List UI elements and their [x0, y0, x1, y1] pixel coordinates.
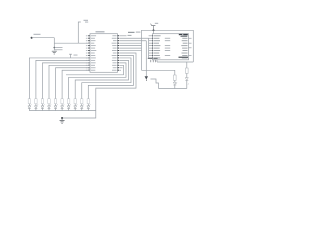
U1 right pin row (pins with numbers) [118, 35, 120, 70]
wire U1 pin bus 3 [119, 47, 141, 49]
wire vertical bus x146 [145, 41, 147, 76]
wire bus segment R10 (U1 pin around IC bottom to R10) [88, 55, 133, 98]
LED D2 [35, 104, 39, 111]
wire bus segment L1 (U1 pin to R1) [29, 58, 90, 99]
wire wrap inner stub [66, 65, 124, 74]
wire to U1 RST pin [54, 42, 90, 44]
U2 bottom pin stubs [148, 58, 158, 62]
wire bus segment L3 (U1 pin to R3) [42, 63, 90, 99]
LED D12 [185, 73, 189, 88]
U1 title label [96, 31, 105, 32]
U1 left pin name labels [91, 35, 96, 70]
node junction C1 [54, 47, 56, 49]
wire stub U1 top-right pin [119, 34, 131, 37]
resistor R6 [61, 99, 63, 104]
resistor R1 [28, 99, 30, 104]
U2 left edge pin dots [152, 35, 153, 58]
LED D3 [41, 104, 45, 111]
LED D1 [28, 104, 32, 111]
U2 right pin stubs [189, 38, 192, 55]
wire rail to ground tap [62, 111, 96, 119]
resistor R10 [87, 99, 89, 104]
wire stub pin 28 [119, 67, 122, 69]
node T-tap above P1 bus [69, 54, 78, 58]
wire rail feed (U1 pin wrap to cathode rail) [96, 53, 136, 110]
wire vertical bus x148 [148, 38, 150, 58]
wire U1 pin bus 4 [119, 50, 141, 52]
wire U1 pin to VCC bus drop [119, 45, 141, 47]
label net A [128, 32, 135, 33]
op-amp U2 body (right IC box) [153, 34, 189, 60]
wire bus segment R7 (U1 pin around IC bottom to R7) [69, 63, 126, 99]
wire RST horizontal [32, 37, 55, 39]
wire bus segment L5 (U1 pin to R5) [56, 68, 90, 99]
wire bottom return rail [159, 88, 187, 90]
wire VCC top rail [142, 30, 194, 62]
U2 left pin stubs [149, 36, 153, 58]
wire LED common cathode rail [29, 110, 95, 112]
LED D5 [54, 104, 58, 111]
wire stub pin 29 [119, 69, 121, 71]
ground GND1 below C1 [52, 51, 57, 54]
ground GND3 (right, arrow style) [145, 76, 148, 81]
resistor R8 [74, 99, 76, 104]
capacitor C1 plates [54, 48, 62, 50]
resistor R2 [35, 99, 37, 104]
U2 right pin labels [181, 35, 187, 58]
wire bus segment L6 (U1 pin to R6) [62, 70, 90, 99]
wire VCC pin drop into U2 [153, 30, 155, 33]
resistor R4 [48, 99, 50, 104]
label RST [34, 34, 41, 35]
wire VCC bus to R11 [142, 70, 175, 75]
U1 left pin row (pins with numbers) [88, 35, 90, 70]
wire U1 pin bus 2b [119, 42, 141, 44]
U2 center labels [165, 38, 170, 56]
LED D7 [67, 104, 71, 111]
wire bus segment L2 (U1 pin to R2) [36, 60, 90, 98]
U2 left pin labels [154, 35, 161, 58]
capacitor C2 mark [84, 20, 89, 23]
wire U1 pin to U2 bus 2 [119, 40, 146, 42]
wire XTAL vertical to U1 top area [78, 22, 81, 43]
wire lower rail y62 [157, 60, 193, 62]
LED D9 [80, 104, 84, 111]
U1 left pin numbers [86, 35, 88, 70]
U1 right pin name labels [112, 35, 117, 70]
U2 bottom-right dark label [179, 57, 189, 58]
resistor R3 [41, 99, 43, 104]
LED D11 [173, 80, 177, 88]
resistor R11 [174, 75, 177, 80]
wire bus segment R8 (U1 pin around IC bottom to R8) [75, 60, 128, 98]
wire bus segment R9 (U1 pin around IC bottom to R9) [82, 58, 131, 99]
wire vertical bus x141 [141, 40, 143, 70]
resistor R5 [54, 99, 56, 104]
node ground junction dot [61, 117, 63, 119]
wire bus segment L4 (U1 pin to R4) [49, 65, 90, 98]
LED D4 [48, 104, 52, 111]
op-amp U1 body (MCU IC box) [90, 34, 118, 73]
LED D10 [87, 104, 91, 111]
resistor R12 [186, 68, 189, 73]
resistor R7 [67, 99, 69, 104]
resistor R9 [81, 99, 83, 104]
label VCC [136, 31, 141, 34]
LED D6 [61, 104, 65, 111]
wire RST drop vertical [53, 38, 55, 51]
U2 part number (dark) [179, 34, 188, 37]
wire U1 pin to U2 bus 1 [119, 37, 148, 39]
ground GND2 (bottom center) [60, 118, 65, 123]
power VCC symbol [151, 23, 159, 31]
node RST terminal dot [31, 37, 33, 39]
wire drop to R12 [186, 62, 188, 68]
wire ground link step [151, 79, 159, 89]
LED D8 [74, 104, 78, 111]
node VCC junction dot [153, 29, 155, 31]
